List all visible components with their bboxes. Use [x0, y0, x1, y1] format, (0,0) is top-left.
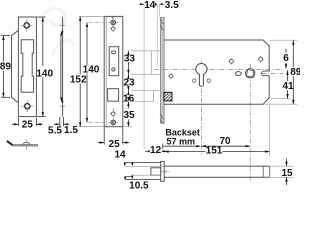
case centerline — [154, 69, 283, 71]
forend hole top — [110, 25, 117, 32]
bolt centerline tick — [162, 170, 170, 172]
bolt face round hole — [112, 68, 115, 71]
case screw right — [257, 56, 264, 63]
forend edge lip line — [60, 36, 62, 98]
profile top ext left — [125, 165, 164, 167]
151 right ext — [269, 105, 271, 157]
hidden detail boxes left of forend — [151, 51, 153, 102]
svg-text:57 mm: 57 mm — [167, 136, 196, 146]
svg-text:6: 6 — [283, 53, 289, 64]
bolt face oval hole — [112, 51, 116, 54]
svg-text:140: 140 — [83, 65, 100, 76]
strike profile screw hump — [23, 143, 30, 145]
slot axis dashline — [261, 72, 284, 74]
svg-text:152: 152 — [70, 74, 87, 85]
dim 140 strike line — [37, 17, 45, 117]
forend screw top — [108, 18, 118, 28]
faceplate inner line — [105, 16, 107, 126]
svg-text:151: 151 — [206, 145, 223, 156]
svg-text:25: 25 — [22, 120, 34, 131]
svg-text:5.5: 5.5 — [48, 125, 62, 136]
short ext line C — [158, 5, 160, 18]
strip break top — [160, 20, 164, 31]
case screw mid — [228, 58, 235, 65]
strike plate cutout — [21, 40, 33, 93]
oval slot — [235, 72, 241, 76]
70 dim — [202, 145, 251, 147]
dim 12 — [145, 150, 152, 152]
dim 25 forend — [98, 127, 130, 144]
dim 140 forend — [86, 23, 88, 123]
forend break squiggle — [112, 17, 115, 21]
dim 14 top — [140, 3, 145, 5]
forend strip — [161, 18, 165, 124]
chain arrows — [127, 51, 129, 56]
forend edge bend top — [61, 31, 63, 36]
follower vertical centerline — [249, 64, 251, 182]
centerline ext top screw — [89, 22, 105, 24]
forend centerline top — [112, 17, 114, 32]
svg-text:14: 14 — [144, 0, 156, 11]
dim 41 — [287, 70, 289, 98]
forend edge bend bottom — [61, 97, 63, 102]
ext bottom right — [265, 103, 297, 105]
lock case outline — [164, 40, 269, 104]
151 dim — [164, 151, 205, 153]
forend hole bottom — [110, 110, 117, 117]
dim 6 — [285, 49, 287, 53]
dim 10.5 bottom — [125, 176, 132, 178]
svg-text:1.5: 1.5 — [64, 125, 78, 136]
svg-text:10.5: 10.5 — [129, 181, 149, 190]
svg-text:25: 25 — [109, 139, 121, 150]
57 dim line — [164, 145, 200, 147]
dim 89 right — [292, 40, 294, 104]
profile bolt block — [151, 168, 161, 175]
svg-text:33: 33 — [124, 53, 136, 64]
forend bolt face plate — [109, 47, 119, 76]
svg-text:3.5: 3.5 — [165, 0, 179, 11]
strike profile centerline — [26, 140, 28, 150]
forend edge screw ticks — [60, 24, 65, 26]
svg-text:89: 89 — [290, 67, 300, 78]
cylinder flank hole left — [193, 79, 196, 82]
dim 25 strike — [12, 118, 43, 126]
deadbolt hatched — [164, 92, 172, 101]
dim 15 — [271, 165, 294, 167]
svg-text:12: 12 — [150, 145, 162, 156]
strike plate lip — [12, 30, 19, 103]
strike plate outline — [18, 17, 36, 117]
cylinder flank hole right — [207, 79, 210, 82]
strike profile lip bend — [7, 141, 13, 145]
profile right cap — [262, 166, 264, 177]
svg-text:23: 23 — [123, 78, 135, 89]
svg-text:35: 35 — [123, 110, 135, 121]
strike profile strip — [12, 145, 38, 146]
svg-text:140: 140 — [36, 68, 53, 79]
svg-text:15: 15 — [281, 168, 293, 179]
profile forend plate — [161, 161, 165, 181]
profile bottom edge — [164, 176, 270, 178]
dim 3.5 arrow — [160, 3, 164, 5]
ext lines 152 — [79, 15, 104, 17]
dim 5.5 / 1.5 — [54, 117, 70, 126]
forend plate outline — [104, 16, 123, 126]
strike screw bottom — [21, 100, 33, 112]
right slot notch — [262, 71, 270, 76]
svg-text:41: 41 — [282, 81, 294, 92]
dim 89 strike — [1, 36, 10, 98]
chain line — [127, 51, 129, 127]
ext 41 — [270, 98, 291, 100]
forend screw bottom — [108, 117, 118, 127]
svg-text:14: 14 — [114, 150, 126, 161]
strike screw top — [21, 19, 33, 31]
cylinder vertical centerline — [200, 61, 202, 156]
watermark — [38, 8, 74, 55]
strip break bottom — [160, 115, 164, 124]
forend edge main line — [62, 17, 64, 117]
case screw left — [168, 73, 175, 80]
ext top right — [270, 39, 297, 41]
forend square hole — [108, 89, 119, 102]
svg-text:16: 16 — [123, 93, 135, 104]
profile top edge — [164, 165, 270, 167]
forend centerline bottom — [112, 108, 114, 127]
euro cylinder profile — [196, 63, 207, 86]
svg-text:89: 89 — [0, 61, 11, 72]
follower — [246, 69, 255, 78]
chain ext lines — [123, 51, 164, 127]
long ext line A — [143, 5, 145, 149]
centerline ext bottom screw — [89, 121, 105, 123]
long ext line B — [156, 5, 158, 67]
dim 152 — [79, 16, 81, 126]
